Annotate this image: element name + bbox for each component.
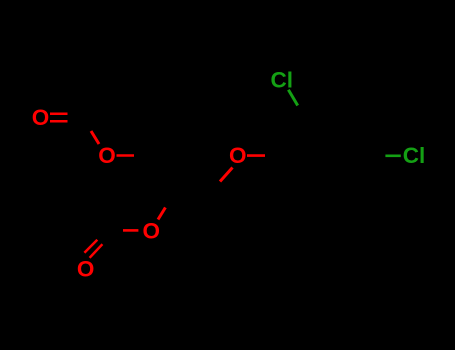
svg-text:Cl: Cl xyxy=(403,143,426,168)
double bond C2=O5 (two parallel diagonal lines) xyxy=(84,240,102,258)
bond C(aryl)-Cl2 (chlorine half, horizontal) xyxy=(385,155,400,158)
bond O4-C2 (oxygen half, horizontal) xyxy=(123,229,138,232)
bond O2-CH2a (oxygen half, horizontal) xyxy=(117,154,135,157)
bond O3-C(aryl ipso) (oxygen half, horizontal) xyxy=(247,154,265,157)
svg-text:O: O xyxy=(229,143,247,168)
bond C1-O2 (ester single bond, oxygen half) xyxy=(91,131,99,144)
svg-text:O: O xyxy=(77,257,95,282)
svg-text:Cl: Cl xyxy=(271,68,294,93)
svg-text:O: O xyxy=(143,219,161,244)
bond C(aryl)-Cl1 (chlorine half, diagonal) xyxy=(288,90,297,106)
svg-text:O: O xyxy=(32,105,50,130)
bond C3-O4 (ester single bond, oxygen half) xyxy=(158,208,165,220)
double bond C1=O1 (two parallel lines) xyxy=(50,114,68,122)
svg-text:O: O xyxy=(98,143,116,168)
bond CH2b-O3 (ether single bond, oxygen half) xyxy=(220,168,233,182)
